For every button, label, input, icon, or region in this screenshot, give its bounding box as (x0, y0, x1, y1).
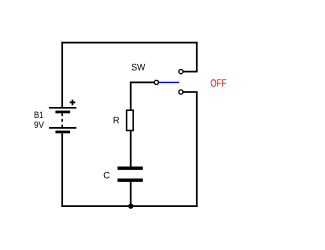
battery B1 cell2 thick plate (55, 131, 70, 134)
wire pole to left (130, 81, 154, 83)
capacitor C bottom plate (118, 179, 143, 182)
wire left rail upper (61, 42, 63, 108)
wire capacitor to bottom rail (130, 182, 132, 207)
label B1 (35, 112, 43, 118)
capacitor C top plate (118, 167, 143, 170)
label C (104, 172, 110, 179)
wire bottom rail (61, 205, 197, 207)
wire switch pole down to resistor (130, 82, 132, 111)
resistor R body (127, 110, 134, 130)
wire top rail (61, 42, 197, 44)
wire upper contact stub (183, 71, 198, 73)
wire right upper vertical (196, 42, 198, 72)
wire left rail lower (61, 133, 63, 207)
battery B1 plus sign (70, 100, 76, 106)
switch SW lower contact terminal (179, 90, 183, 94)
label OFF (211, 79, 226, 86)
switch SW upper contact terminal (179, 70, 183, 74)
switch SW pole terminal (154, 80, 158, 84)
junction node dot (128, 204, 133, 209)
label 9V (34, 121, 44, 128)
battery B1 cell1 long plate (49, 107, 76, 109)
wire resistor to capacitor (130, 131, 132, 168)
label R (114, 117, 119, 123)
wire lower contact stub (183, 91, 198, 93)
battery B1 cell1 thick plate (55, 111, 70, 114)
switch SW blade (blue, OFF position) (159, 81, 180, 83)
battery B1 cell2 long plate (49, 127, 76, 129)
battery B1 dashed link (61, 113, 63, 127)
wire right lower vertical (196, 92, 198, 207)
label SW (132, 64, 145, 71)
